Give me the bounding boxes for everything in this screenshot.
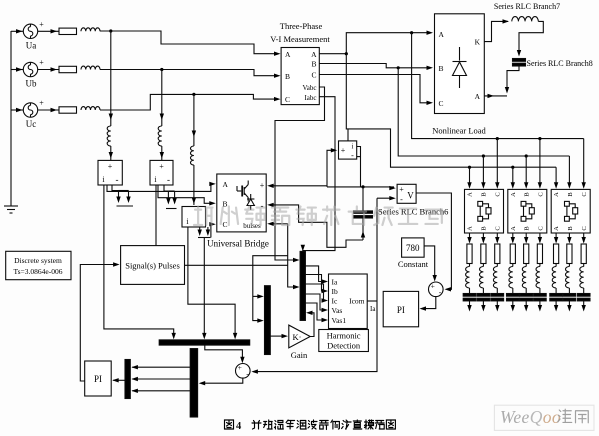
RLC filter leg 7 [550,233,563,312]
wire mux1 out to sum1 [205,345,243,361]
wire block3 stub down to mux [203,238,205,337]
wire bus to Uc [11,108,23,112]
op block PI 2 [383,291,418,326]
svg-text:Harmonic: Harmonic [327,331,361,341]
svg-text:780: 780 [406,243,420,253]
wire V output to sum2 [416,193,451,289]
watermark WeeQoo box [494,405,594,430]
wire block2 to stub arrows [164,185,168,191]
label Harmonic Detection box [319,330,369,352]
wire phase A stub into block4 [347,129,349,141]
wire phase A line [100,31,278,54]
RLC filter leg 8 [563,233,576,312]
wire K to branch7 [484,21,508,41]
RLC filter leg 2 [477,233,490,312]
node dc link [361,185,364,188]
svg-text:A: A [510,192,517,197]
wire block2 output to signal pulses top [155,185,157,246]
voltage measurement block V [397,184,416,204]
svg-text:B: B [480,192,487,197]
wire sum2 to PI2 [422,297,436,309]
svg-text:C: C [494,192,501,196]
wire block1 output down to mux [104,185,174,336]
wire tap B down [160,70,164,127]
wire block2 to bridge B [158,185,213,203]
wire A jog to breaker bus3 [346,54,556,168]
wire bus to Ub [11,67,23,71]
demux bar big [190,349,197,417]
RLC filter leg 5 [520,233,533,312]
resistor Rc [59,107,77,113]
wire phase B line [100,70,278,76]
port stub arrows under block1 [116,191,133,207]
wire pulses net into bridge g [267,222,288,226]
svg-text:Nonlinear Load: Nonlinear Load [432,126,486,136]
svg-text:+: + [431,282,435,291]
svg-text:C: C [311,71,316,80]
svg-text:+: + [238,363,242,372]
wire node to block4 plus [327,150,334,187]
svg-text:Universal Bridge: Universal Bridge [207,239,269,249]
node phase A tap [109,29,112,32]
RLC filter leg 9 [577,233,590,312]
svg-text:A: A [510,226,517,231]
current measurement block 3 [182,207,206,228]
svg-text:Ts=3.0864e-006: Ts=3.0864e-006 [14,267,63,276]
wire sum1 out to demux [201,378,243,383]
wire 780 to sum2 [424,246,435,279]
wire pulses branch 2 [253,295,261,297]
op block Three-Phase Breaker 3 [551,189,590,233]
wire B tap down to breaker bus2 [398,68,569,156]
watermark hangzhou kerui row [194,207,442,225]
svg-text:B: B [480,226,487,231]
inductor tap C [190,146,193,165]
svg-text:C: C [439,99,444,108]
wire dc node [327,186,396,190]
wire demux to mux small 3 [131,389,190,393]
wire mux2 to Vas1 [305,303,325,320]
wire into current block 1 [109,146,113,160]
svg-text:K·: K· [293,332,302,342]
port stub arrows under block3 [198,227,211,238]
gain block K [289,325,310,348]
svg-text:Ic: Ic [332,297,338,306]
wire phase C line [100,94,278,110]
svg-text:C: C [538,226,545,230]
wire Icom to sum1 [367,300,377,302]
wire block4 outputs down [357,147,361,187]
svg-text:Detection: Detection [327,341,361,351]
svg-text:V-I Measurement: V-I Measurement [270,34,330,44]
wire Uc to resistor [38,108,59,112]
svg-text:B: B [524,192,531,197]
svg-text:B: B [567,192,574,197]
svg-text:Constant: Constant [398,259,429,269]
svg-text:-: - [167,175,170,185]
svg-text:A: A [553,192,560,197]
wire demux to mux small 2 [131,377,190,381]
current measurement block 4 (dc link) [339,141,357,160]
wire branch8 down to A [507,66,519,91]
svg-text:i: i [352,143,354,151]
svg-text:C: C [494,226,501,230]
wire into V minus [377,196,396,200]
svg-text:Gain: Gain [291,350,308,360]
wire into bridge plus [267,184,327,188]
svg-text:-: - [116,175,119,185]
RLC filter leg 3 [491,233,504,312]
wire left bus [10,31,12,206]
RLC filter leg 1 [463,233,476,312]
svg-text:+: + [341,146,346,155]
mux1 bar [159,340,250,345]
op block Three-Phase Breaker 2 [508,189,547,233]
svg-text:B: B [439,64,444,73]
svg-text:+: + [159,162,164,171]
inductor Lc [81,107,100,110]
wire gainbar to gain [270,334,288,338]
svg-text:Icom: Icom [349,297,365,306]
wire A tap down to breaker bus1 [412,33,584,139]
wire Ub to resistor [38,67,59,71]
svg-text:C: C [581,192,588,196]
svg-text:Vas1: Vas1 [332,316,347,325]
mux2 bar [300,251,305,320]
AC voltage source Ua [23,20,44,51]
wire bridge minus to branch6 bottom [270,205,363,247]
wire mux2 to Vas [305,294,325,310]
node phase C tap [192,93,195,96]
wire demux to mux small 1 [131,365,190,369]
svg-text:Iabc: Iabc [304,94,316,102]
svg-text:+: + [108,162,113,171]
constant block 780 [402,238,425,257]
wire mux2 to Ib [305,275,325,292]
wire pulses branch to gain mux [253,256,288,321]
svg-text:Uc: Uc [26,119,37,129]
svg-text:A: A [475,92,481,101]
svg-text:Ub: Ub [26,79,37,89]
wire Ua to resistor [38,29,59,33]
RLC filter leg 4 [507,233,520,312]
svg-text:B: B [311,60,316,69]
RLC filter leg 6 [534,233,547,312]
op block Signal(s) Pulses [121,246,185,285]
svg-text:WeeQoo: WeeQoo [500,407,561,427]
svg-text:+: + [399,185,404,194]
resistor Ra [59,28,77,34]
wire block3 output down to mux [188,227,235,336]
op block Three-Phase Breaker 1 [465,189,504,233]
ground [4,206,18,213]
inductor Lb [81,66,100,69]
caption figure 4 title [225,420,396,432]
svg-text:K: K [475,38,481,47]
AC voltage source Uc [23,99,44,130]
svg-text:Signal(s) Pulses: Signal(s) Pulses [125,261,180,271]
inductor tap A [107,126,111,146]
svg-text:Three-Phase: Three-Phase [280,21,323,31]
wire B output to nonlinear load B [319,64,430,68]
wire into current block 2 [160,146,164,160]
svg-text:Ua: Ua [26,40,37,50]
svg-text:Series RLC Branch8: Series RLC Branch8 [527,59,593,68]
AC voltage source Ub [23,58,44,89]
capacitor Series RLC Branch6 [354,187,373,240]
wire mux small to PI1 [112,378,125,382]
svg-text:PI: PI [94,374,102,384]
svg-text:Ib: Ib [332,287,338,296]
svg-text:V: V [407,191,414,201]
wire PI1 to signal pulses [80,265,117,382]
wire mux2 to Ic [305,284,325,301]
svg-text:A: A [311,50,317,59]
svg-text:+: + [39,20,44,29]
wire bus3 drops [467,166,558,189]
demux gain bar [265,286,271,355]
node A-NL junction [410,31,413,34]
inductor Series RLC Branch7 [512,17,539,22]
capacitor Series RLC Branch8 [513,59,526,62]
wire Iabc output down to mux2 top [303,97,335,251]
op block Three-Phase V-I Measurement [281,48,319,105]
svg-text:+: + [39,58,44,67]
svg-text:B: B [524,226,531,231]
svg-text:B: B [567,226,574,231]
wire tap A down [109,31,113,126]
svg-text:A: A [467,226,474,231]
op block PI 1 [85,361,112,396]
annotation Discrete system [6,251,71,279]
node A junction [345,52,348,55]
svg-text:4: 4 [236,421,242,432]
wire branch7 to branch8 [519,21,543,53]
current measurement block 1 [98,160,122,185]
svg-text:A: A [553,226,560,231]
op block Nonlinear Load [435,14,485,114]
svg-text:Discrete system: Discrete system [14,256,62,265]
svg-text:Series RLC Branch7: Series RLC Branch7 [494,2,560,11]
resistor Rb [59,66,77,72]
mux small bar [125,360,130,399]
svg-text:PI: PI [397,305,405,315]
wire gain out to mux2 [308,313,314,337]
wire NL A out [484,94,507,98]
svg-text:Vabc: Vabc [303,84,317,92]
wire tap C down [192,94,196,146]
svg-text:C: C [581,226,588,230]
inductor tap B [158,126,162,146]
svg-text:+: + [260,181,265,190]
svg-text:A: A [467,192,474,197]
svg-text:C: C [285,95,290,104]
wire block3 to bridge C [211,224,213,237]
wire Vabc output down [275,87,325,260]
op block Harmonic Detection [329,274,368,329]
op block Universal Bridge U1 [217,174,266,232]
wire block1 to bridge A [107,184,213,192]
svg-text:-: - [400,195,403,204]
current measurement block 2 [150,160,173,185]
svg-text:C: C [223,220,228,229]
wire signal pulses net [185,264,288,266]
wire A output to nonlinear load A [319,53,346,55]
wire bus to Ua [11,29,23,33]
node phase B tap [160,68,163,71]
port stub arrows under block2 [166,191,177,209]
svg-text:-: - [351,151,354,160]
svg-text:Vas: Vas [332,306,343,315]
svg-text:A: A [285,50,291,59]
inductor La [81,28,100,31]
svg-text:C: C [538,192,545,196]
wire pulses vertical [288,224,297,287]
svg-text:A: A [223,180,229,189]
wire tap C to current block 3 [192,165,196,205]
wire mux2 to Ia [305,266,325,282]
wire C output to nonlinear load C [319,75,430,103]
svg-text:Ia: Ia [370,305,376,313]
svg-text:+: + [39,99,44,108]
summing junction sum1 [236,363,251,378]
wire bus2 drops [481,154,571,188]
summing junction sum2 [429,282,444,297]
wire bus1 drops [495,137,586,189]
svg-text:A: A [439,30,445,39]
svg-text:B: B [285,72,290,81]
node B junction [397,66,400,69]
svg-text:Ia: Ia [332,278,338,287]
wire block1 to stub arrows [112,185,119,191]
